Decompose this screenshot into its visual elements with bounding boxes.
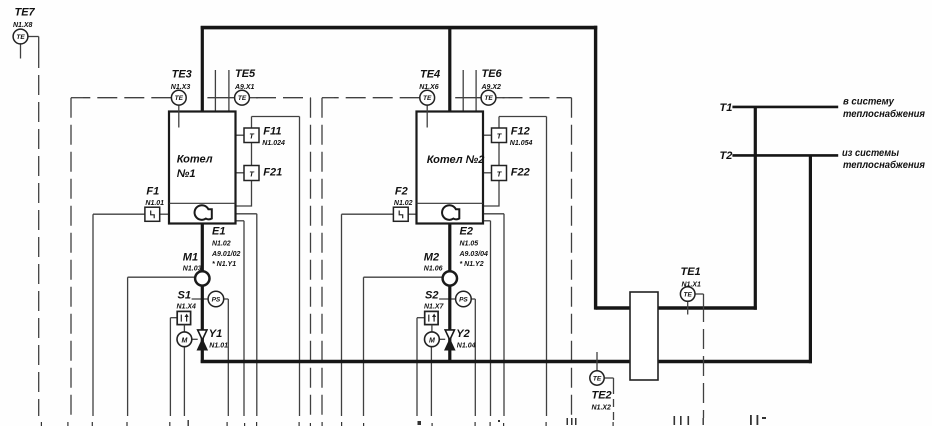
svg-text:N1.X1: N1.X1 (682, 282, 702, 289)
svg-text:из системы: из системы (842, 147, 899, 159)
svg-text:* N1.Y2: * N1.Y2 (460, 261, 484, 268)
svg-text:F2: F2 (395, 186, 408, 198)
valve Y2 (445, 330, 454, 350)
svg-text:N1.X7: N1.X7 (424, 304, 445, 311)
svg-text:N1.X2: N1.X2 (592, 405, 612, 412)
wire sensor TE3 signal (dashed) (71, 98, 171, 416)
svg-text:TE2: TE2 (592, 390, 612, 402)
label E2 (459, 226, 489, 269)
svg-text:F21: F21 (263, 167, 282, 179)
svg-text:F1: F1 (146, 186, 159, 198)
svg-text:Y1: Y1 (209, 328, 222, 340)
svg-text:TE: TE (423, 95, 432, 102)
svg-text:M: M (181, 337, 187, 344)
wire F21 link (251, 143, 253, 166)
sensor TE1 (680, 287, 695, 315)
pipe T2 drop (809, 155, 812, 363)
svg-text:N1.01: N1.01 (209, 343, 228, 350)
wire F1 signal (93, 214, 145, 416)
svg-text:№1: №1 (177, 168, 196, 180)
wire F2 signal (342, 214, 394, 416)
sensor TE7 (13, 29, 28, 58)
valve motor actuator (177, 325, 198, 347)
svg-text:N1.X4: N1.X4 (177, 304, 197, 311)
svg-text:теплоснабжения: теплоснабжения (843, 108, 925, 120)
flue pipe lines (463, 70, 476, 112)
svg-text:N1.04: N1.04 (457, 343, 476, 350)
svg-text:TE5: TE5 (235, 68, 256, 80)
svg-text:N1.X6: N1.X6 (419, 84, 439, 91)
wire F21 to boiler (236, 181, 252, 207)
svg-text:Y2: Y2 (456, 328, 469, 340)
svg-text:F11: F11 (263, 126, 281, 138)
svg-text:A9.X1: A9.X1 (234, 84, 255, 91)
wire sensor TE5 signal (dashed) (250, 98, 311, 416)
valve motor actuator (425, 325, 446, 347)
burner symbol (442, 205, 459, 220)
svg-text:N1.X8: N1.X8 (13, 22, 33, 29)
wire switch S1 signal (170, 318, 177, 416)
pressure switch PS (456, 291, 472, 307)
pipe to heat exchanger (596, 306, 757, 309)
cut-off caption fragments (41, 415, 766, 426)
pump M1 (195, 271, 209, 285)
svg-text:N1.05: N1.05 (460, 241, 479, 248)
wire F12 signal (499, 117, 547, 417)
svg-text:A9.X2: A9.X2 (481, 84, 502, 91)
sensor F21 (244, 166, 259, 181)
svg-text:TE: TE (16, 34, 25, 41)
sensor TE6 (455, 90, 496, 105)
wire F11 signal (252, 117, 300, 417)
pipe boiler return riser (201, 224, 204, 364)
burner symbol (195, 205, 212, 220)
wire E1 outer (236, 214, 257, 416)
sensor TE4 (420, 90, 435, 127)
sensor F12 (492, 128, 507, 143)
svg-text:PS: PS (459, 297, 468, 304)
sensor TE2 signal wire (dashed) (604, 378, 614, 421)
wire sensor TE4 signal (dashed) (322, 98, 420, 416)
label E1 (211, 226, 241, 269)
svg-text:Котел: Котел (177, 154, 213, 166)
boiler &#1050;&#1086;&#1090;&#1077;&#1083; &#8470;2 (417, 112, 484, 224)
svg-text:TE: TE (593, 376, 602, 383)
wire motor actuator signal (430, 347, 432, 417)
svg-text:E2: E2 (460, 226, 473, 238)
pipe supply drop (594, 26, 597, 310)
wire F12 tap (483, 134, 492, 136)
svg-text:N1.03: N1.03 (183, 266, 202, 273)
pipe boiler supply riser (201, 26, 204, 112)
note to heating system (843, 96, 925, 121)
wire E1 inner (236, 221, 245, 416)
wire PS signal (192, 299, 229, 416)
wire E2 outer (483, 214, 504, 416)
svg-text:TE7: TE7 (15, 7, 36, 19)
svg-text:M1: M1 (183, 252, 198, 264)
svg-text:TE: TE (238, 95, 247, 102)
pipe supply header (201, 26, 598, 30)
svg-text:Котел №2: Котел №2 (427, 154, 485, 166)
svg-text:A9.01/02: A9.01/02 (211, 251, 241, 258)
svg-text:TE1: TE1 (681, 266, 701, 278)
pipe return header (201, 360, 812, 363)
svg-text:TE6: TE6 (482, 68, 503, 80)
svg-text:TE4: TE4 (420, 69, 440, 81)
switch S1 (177, 311, 190, 324)
boiler name (177, 154, 213, 181)
note from heating system (842, 147, 925, 171)
svg-text:N1.024: N1.024 (262, 140, 285, 147)
svg-text:E1: E1 (212, 226, 225, 238)
boiler &#1050;&#1086;&#1090;&#1077;&#1083; &#8470;1 (169, 112, 236, 224)
wire pump M1 signal (128, 277, 196, 416)
wire F22 tap (483, 172, 492, 174)
svg-text:N1.01: N1.01 (145, 200, 164, 207)
sensor TE3 (171, 90, 186, 127)
svg-text:S1: S1 (178, 290, 191, 302)
wire F2 tap (408, 213, 416, 215)
svg-text:M2: M2 (424, 252, 439, 264)
wire E2 inner (483, 221, 491, 416)
svg-text:N1.X3: N1.X3 (171, 84, 191, 91)
svg-text:A9.03/04: A9.03/04 (459, 251, 489, 258)
sensor TE5 (207, 90, 249, 105)
sensor F22 (492, 166, 507, 181)
sensor F2 (393, 207, 408, 221)
svg-text:теплоснабжения: теплоснабжения (843, 159, 925, 171)
pipe T1 line (732, 106, 838, 109)
pipe T2 line (732, 154, 838, 157)
wire sensor TE6 signal (dashed) (496, 98, 572, 416)
wire PS signal (439, 299, 475, 416)
svg-text:F12: F12 (511, 126, 530, 138)
wire F22 to boiler (483, 181, 499, 207)
pipe boiler return riser (448, 224, 451, 364)
wire F22 link (498, 143, 500, 166)
pump M2 (443, 271, 457, 285)
svg-text:* N1.Y1: * N1.Y1 (212, 261, 236, 268)
pipe boiler supply riser (448, 26, 451, 112)
svg-text:M: M (429, 337, 435, 344)
wire F11 tap (236, 134, 245, 136)
svg-text:PS: PS (212, 297, 221, 304)
svg-text:в систему: в систему (843, 96, 895, 108)
wire F1 tap (160, 213, 169, 215)
svg-text:TE: TE (484, 95, 493, 102)
svg-text:TE: TE (684, 292, 693, 299)
heat exchanger (630, 292, 658, 380)
wire switch S2 signal (417, 318, 425, 416)
svg-text:N1.06: N1.06 (424, 266, 443, 273)
svg-text:TE3: TE3 (172, 69, 192, 81)
svg-text:N1.02: N1.02 (394, 200, 413, 207)
pipe heat exchanger to T1 (754, 107, 757, 310)
sensor TE2 (590, 352, 604, 385)
flue pipe lines (215, 70, 229, 112)
svg-text:T2: T2 (720, 150, 733, 162)
svg-text:F22: F22 (511, 167, 530, 179)
sensor F11 (244, 128, 259, 143)
sensor F1 (145, 207, 160, 221)
wire motor actuator signal (183, 347, 185, 417)
boiler name (427, 154, 485, 166)
sensor TE1 signal wire (dashed) (695, 294, 704, 418)
svg-text:S2: S2 (425, 290, 438, 302)
pressure switch PS (208, 291, 224, 307)
valve Y1 (198, 330, 207, 350)
svg-text:N1.054: N1.054 (510, 140, 533, 147)
svg-text:TE: TE (175, 95, 184, 102)
svg-text:T1: T1 (720, 102, 733, 114)
svg-text:N1.02: N1.02 (212, 241, 231, 248)
switch S2 (425, 311, 438, 324)
sensor TE7 signal wire (28, 37, 39, 417)
wire F21 tap (236, 172, 245, 174)
wire pump M2 signal (364, 277, 443, 416)
